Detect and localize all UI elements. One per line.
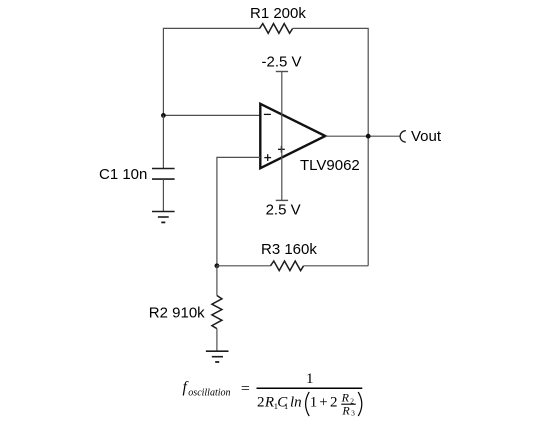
label C1 10n — [99, 166, 147, 183]
svg-text:R: R — [341, 403, 350, 417]
svg-text:Vout: Vout — [411, 128, 442, 145]
label -2.5 V — [262, 53, 302, 70]
svg-text:2: 2 — [257, 395, 265, 411]
wire from R1 to right rail — [293, 28, 369, 136]
wire non-inverting input — [217, 157, 260, 265]
svg-text:2.5 V: 2.5 V — [266, 201, 301, 218]
wire top feedback from left corner to R1 — [163, 28, 259, 115]
label TLV9062 — [300, 157, 360, 174]
svg-text:ln: ln — [290, 395, 302, 411]
svg-text:TLV9062: TLV9062 — [300, 157, 360, 174]
wire C1 to ground — [162, 179, 164, 211]
ground below C1 — [152, 212, 175, 223]
node output junction dot — [366, 134, 371, 139]
capacitor C1 — [152, 169, 175, 180]
V- supply bar -2.5 V — [276, 71, 288, 73]
terminal Vout — [400, 131, 406, 142]
wire node B to R3 — [217, 265, 271, 267]
svg-text:1: 1 — [284, 401, 288, 411]
svg-text:3: 3 — [351, 408, 355, 417]
resistor R1 — [260, 24, 293, 34]
wire node B down to R2 — [216, 266, 218, 296]
svg-text:2: 2 — [330, 395, 338, 411]
svg-text:R2 910k: R2 910k — [149, 305, 205, 322]
formula f oscillation — [183, 371, 363, 417]
resistor R3 — [271, 261, 304, 271]
svg-text:oscillation: oscillation — [188, 387, 230, 398]
svg-text:=: = — [241, 381, 250, 398]
svg-text:1: 1 — [306, 371, 314, 387]
op-amp U1 TLV9062 — [260, 104, 325, 168]
svg-text:R1 200k: R1 200k — [250, 5, 306, 22]
wire R3 to right rail — [304, 265, 369, 267]
label R1 200k — [250, 5, 306, 22]
node A junction dot — [161, 113, 166, 118]
label R2 910k — [149, 305, 205, 322]
svg-text:-2.5 V: -2.5 V — [262, 53, 302, 70]
svg-text:R3 160k: R3 160k — [261, 241, 317, 258]
svg-text:C1 10n: C1 10n — [99, 166, 147, 183]
node B junction dot — [215, 263, 220, 268]
svg-text:1: 1 — [310, 395, 318, 411]
resistor R2 — [212, 296, 222, 329]
wire left rail down to C1 — [162, 115, 164, 168]
V+ supply bar 2.5 V — [276, 199, 288, 201]
wire output from op-amp — [325, 135, 400, 137]
supply rail V- vertical through op-amp — [281, 72, 283, 201]
svg-text:+: + — [319, 395, 327, 411]
wire inverting input — [163, 114, 260, 116]
label R3 160k — [261, 241, 317, 258]
svg-text:R: R — [341, 390, 350, 404]
wire R2 to ground — [216, 329, 218, 352]
label Vout — [411, 128, 442, 145]
ground below R2 — [206, 351, 229, 362]
label 2.5 V — [266, 201, 301, 218]
wire right rail down to R3 — [367, 136, 369, 266]
svg-text:R: R — [264, 395, 274, 411]
